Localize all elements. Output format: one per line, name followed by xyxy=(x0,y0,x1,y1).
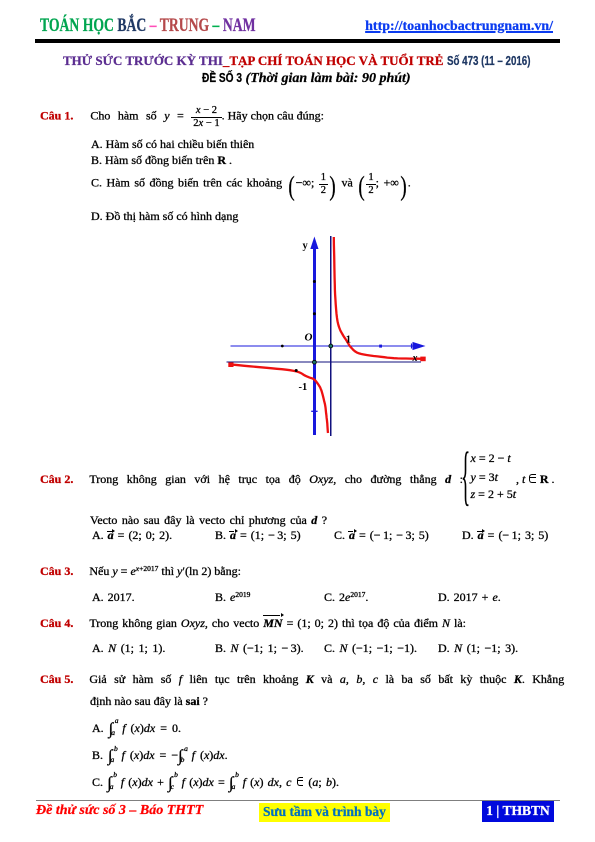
cau 3 answers xyxy=(0,589,1,591)
red curve right branch xyxy=(334,237,424,359)
cau 2 answers xyxy=(0,527,1,529)
red curve left end blob xyxy=(228,362,233,367)
blue tick on x-axis right xyxy=(379,345,382,348)
cau 2 line 2 xyxy=(90,513,327,527)
svg-text:1: 1 xyxy=(346,335,351,346)
black dot on left branch xyxy=(295,369,298,372)
cau 5 stem line 1 xyxy=(40,672,564,686)
cau 1 option B xyxy=(91,153,232,167)
y-axis xyxy=(313,245,316,435)
title line 2 xyxy=(202,70,411,87)
cau 5 option B xyxy=(92,748,228,762)
cau 2 stem xyxy=(40,472,463,486)
svg-text:y: y xyxy=(303,241,309,252)
cau 5 option A xyxy=(92,721,181,735)
green node at asymptote x-axis crossing xyxy=(329,344,333,348)
red curve left branch xyxy=(230,364,328,433)
header rule xyxy=(35,39,560,44)
system row z xyxy=(471,487,517,501)
small tick before x arrowhead xyxy=(411,344,413,349)
footer right: page box xyxy=(482,801,554,822)
system row y xyxy=(471,470,498,484)
svg-text:-1: -1 xyxy=(299,382,308,393)
cau 5 option C xyxy=(92,775,339,789)
svg-text:x: x xyxy=(412,353,418,364)
x-axis arrowhead xyxy=(413,342,426,350)
footer left: de thu suc xyxy=(36,803,203,819)
title line 1 xyxy=(63,53,554,69)
red curve right end blob xyxy=(420,357,425,362)
svg-text:O: O xyxy=(305,332,313,344)
green node at y-axis asymptote crossing xyxy=(313,360,317,364)
asymptote y=-1/2 (horizontal navy line) xyxy=(227,361,422,363)
cau 1 option A xyxy=(91,137,254,151)
asymptote x=1/2 (vertical navy line) xyxy=(330,236,332,436)
footer middle: yellow highlight xyxy=(259,803,390,822)
system row x xyxy=(471,451,511,465)
cau 4 stem xyxy=(40,616,466,630)
cau 3 stem xyxy=(40,564,241,578)
cau 1 option D xyxy=(91,209,238,223)
cau 4 answers xyxy=(0,640,1,642)
tick dot x=-1 on x-axis xyxy=(281,345,284,348)
x-axis xyxy=(231,345,416,347)
cau 5 stem line 2 xyxy=(90,694,208,708)
tick dot y=2 on y-axis xyxy=(313,280,316,283)
footer rule xyxy=(36,800,560,801)
y-axis arrowhead xyxy=(310,237,318,250)
tick on y-axis below xyxy=(311,410,317,412)
header right: url xyxy=(253,19,553,35)
t in R xyxy=(516,472,555,486)
cau 1 option C xyxy=(91,173,411,197)
system brace xyxy=(461,443,470,509)
cau 1 stem xyxy=(40,106,324,130)
header left: site name xyxy=(40,16,256,37)
tick dot y=1 on y-axis xyxy=(313,312,316,315)
